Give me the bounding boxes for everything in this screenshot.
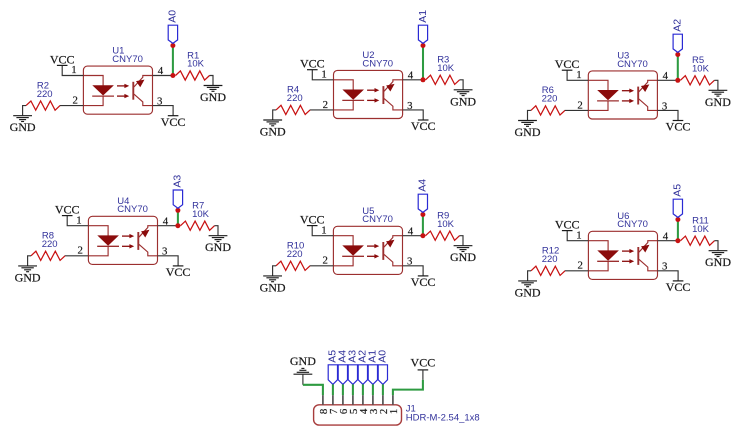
junction node A4 xyxy=(420,233,425,238)
U1 light arrow upper xyxy=(117,85,125,87)
svg-text:3: 3 xyxy=(662,261,667,273)
ground GND (R11) xyxy=(709,251,728,257)
wire node to flag (net A4) xyxy=(422,215,424,236)
svg-text:GND: GND xyxy=(705,95,731,109)
U1 phototransistor collector xyxy=(134,76,153,88)
junction node A2 xyxy=(675,78,680,83)
net flag A0 xyxy=(168,25,177,43)
U3 LED cathode bar xyxy=(597,100,619,102)
svg-text:220: 220 xyxy=(42,239,58,250)
svg-text:VCC: VCC xyxy=(666,280,691,294)
wire R2 to ground xyxy=(23,106,26,116)
svg-text:2: 2 xyxy=(577,260,582,272)
resistor R11 10K xyxy=(681,236,715,245)
ground GND (R12) xyxy=(518,281,537,287)
U1 phototransistor base bar xyxy=(132,82,134,100)
resistor R10 220 xyxy=(276,261,310,270)
junction node A0 xyxy=(170,73,175,78)
resistor R7 10K xyxy=(181,221,215,230)
wire R2 to pin 2 xyxy=(60,105,84,107)
svg-text:10K: 10K xyxy=(192,209,210,220)
svg-text:4: 4 xyxy=(663,70,669,82)
flag junction dot xyxy=(675,52,680,57)
wire R12 to ground xyxy=(528,271,531,281)
optocoupler U5 body xyxy=(333,226,402,274)
svg-text:4: 4 xyxy=(158,65,164,77)
resistor R4 220 xyxy=(276,105,310,114)
wire GND to pin 8 xyxy=(303,385,323,395)
wire A2 to J1 pin 4 xyxy=(362,384,364,395)
svg-text:10K: 10K xyxy=(187,59,205,70)
wire R4 to pin 2 xyxy=(310,109,334,111)
resistor R6 220 xyxy=(531,106,565,115)
J1 pin 7 xyxy=(332,395,334,405)
J1 pin 3 xyxy=(372,395,374,405)
power VCC (pin 3) xyxy=(418,275,429,277)
U4 light arrow lower xyxy=(122,245,130,247)
wire node to flag (net A5) xyxy=(677,220,679,241)
ground GND (R10) xyxy=(263,276,282,282)
wire R8 to pin 2 xyxy=(65,255,89,257)
svg-text:GND: GND xyxy=(290,354,316,368)
power VCC (pin 3) xyxy=(418,119,429,121)
U3 LED cathode path xyxy=(588,101,608,111)
wire R7 to ground xyxy=(215,226,219,236)
wire node to flag (net A3) xyxy=(177,210,179,225)
wire R6 to ground xyxy=(528,110,531,120)
svg-text:1: 1 xyxy=(576,229,581,241)
svg-text:3: 3 xyxy=(407,256,412,268)
ground GND (R5) xyxy=(709,90,728,96)
svg-text:CNY70: CNY70 xyxy=(117,204,148,215)
wire R10 to ground xyxy=(273,266,276,276)
svg-text:GND: GND xyxy=(260,280,286,294)
svg-text:CNY70: CNY70 xyxy=(617,59,648,70)
wire R11 to ground xyxy=(715,241,719,251)
U6 phototransistor base bar xyxy=(637,247,639,265)
net flag A4 (header) xyxy=(338,365,347,385)
net flag A5 (header) xyxy=(328,365,337,385)
U2 light arrow lower xyxy=(367,99,375,101)
power VCC (pin 3) xyxy=(673,280,684,282)
svg-text:GND: GND xyxy=(450,94,476,108)
U6 light arrow upper xyxy=(622,250,630,252)
U4 LED cathode path xyxy=(88,246,108,256)
svg-text:CNY70: CNY70 xyxy=(617,219,648,230)
wire R8 to ground xyxy=(28,256,31,266)
net flag A4 xyxy=(418,194,427,212)
U1 phototransistor emitter xyxy=(134,94,153,106)
svg-text:1: 1 xyxy=(76,214,81,226)
svg-text:2: 2 xyxy=(577,99,582,111)
power VCC (pin 1) xyxy=(62,215,73,217)
net flag A0 (header) xyxy=(378,365,387,385)
svg-text:10K: 10K xyxy=(437,63,455,74)
U5 light arrow upper xyxy=(367,245,375,247)
U2 LED cathode path xyxy=(334,100,354,110)
wire R6 to pin 2 xyxy=(565,109,589,111)
wire A3 to J1 pin 5 xyxy=(352,384,354,395)
svg-text:220: 220 xyxy=(287,249,303,260)
svg-text:2: 2 xyxy=(322,255,327,267)
wire pin 4 to node A5 xyxy=(658,240,678,242)
J1 pin 2 xyxy=(382,395,384,405)
U1 LED cathode bar xyxy=(92,95,114,97)
svg-text:220: 220 xyxy=(37,89,53,100)
wire R12 to pin 2 xyxy=(565,270,589,272)
wire R5 to ground xyxy=(714,80,718,90)
svg-text:1: 1 xyxy=(71,64,76,76)
wire R9 to ground xyxy=(460,236,464,246)
wire R10 to pin 2 xyxy=(310,265,334,267)
power VCC (pin 3) xyxy=(673,120,684,122)
flag junction dot xyxy=(421,43,426,48)
ground GND (R3) xyxy=(454,90,473,96)
svg-text:A0: A0 xyxy=(167,10,179,23)
svg-text:1: 1 xyxy=(321,69,326,81)
svg-text:A2: A2 xyxy=(672,19,684,32)
wire pin 3 to VCC xyxy=(403,110,424,120)
wire pin 3 to VCC xyxy=(158,256,179,266)
U2 LED anode path xyxy=(334,80,354,90)
svg-text:GND: GND xyxy=(515,285,541,299)
net flag A2 (header) xyxy=(358,365,367,385)
U2 LED cathode bar xyxy=(342,99,364,101)
wire pin 4 to node A0 xyxy=(153,75,173,77)
U1 LED triangle xyxy=(92,85,114,95)
wire A5 to J1 pin 7 xyxy=(332,384,334,395)
svg-text:10K: 10K xyxy=(692,64,710,75)
power VCC (pin 1) xyxy=(57,64,68,66)
resistor R8 220 xyxy=(31,251,65,260)
optocoupler U2 body xyxy=(334,70,403,118)
svg-text:CNY70: CNY70 xyxy=(362,214,393,225)
svg-text:VCC: VCC xyxy=(411,356,436,370)
svg-text:2: 2 xyxy=(72,95,77,107)
U6 light arrow lower xyxy=(622,260,630,262)
connector J1 body xyxy=(314,405,402,425)
net flag A3 (header) xyxy=(348,365,357,385)
wire pin 4 to node A1 xyxy=(403,79,423,81)
svg-text:220: 220 xyxy=(542,254,558,265)
svg-text:4: 4 xyxy=(408,69,414,81)
resistor R1 10K xyxy=(176,71,210,80)
ground GND (R4) xyxy=(263,120,282,126)
U5 light arrow lower xyxy=(367,255,375,257)
svg-text:4: 4 xyxy=(408,225,414,237)
J1 pin 8 xyxy=(322,395,324,405)
svg-text:GND: GND xyxy=(205,240,231,254)
U6 LED anode path xyxy=(588,241,608,251)
junction node A3 xyxy=(175,223,180,228)
power VCC (pin 1) xyxy=(307,69,318,71)
wire node to flag (net A2) xyxy=(677,55,679,81)
svg-text:4: 4 xyxy=(163,215,169,227)
U2 phototransistor base bar xyxy=(382,86,384,104)
flag junction dot xyxy=(675,217,680,222)
U3 phototransistor collector xyxy=(639,80,658,92)
svg-text:10K: 10K xyxy=(437,219,455,230)
U5 LED anode path xyxy=(333,236,353,246)
resistor R2 220 xyxy=(26,101,60,110)
net flag A1 (header) xyxy=(368,365,377,385)
power VCC (pin 1) xyxy=(307,225,318,227)
svg-text:3: 3 xyxy=(162,246,167,258)
svg-text:GND: GND xyxy=(15,270,41,284)
resistor R12 220 xyxy=(531,266,565,275)
U1 LED cathode path xyxy=(83,96,103,106)
net flag A3 xyxy=(173,190,182,208)
wire pin 4 to node A4 xyxy=(403,235,423,237)
svg-text:3: 3 xyxy=(407,100,412,112)
U6 phototransistor emitter xyxy=(639,259,658,271)
U3 light arrow upper xyxy=(622,90,630,92)
wire pin 3 to VCC xyxy=(403,266,424,276)
U6 LED triangle xyxy=(597,250,619,260)
wire pin 3 to VCC xyxy=(657,110,678,120)
U4 phototransistor base bar xyxy=(137,232,139,250)
svg-text:GND: GND xyxy=(260,125,286,139)
wire A4 to J1 pin 6 xyxy=(342,384,344,395)
wire pin 3 to VCC xyxy=(658,271,679,281)
U4 phototransistor collector xyxy=(139,226,158,238)
U2 light arrow upper xyxy=(367,89,375,91)
wire node to flag (net A0) xyxy=(172,46,174,76)
wire R3 to ground xyxy=(460,80,464,90)
U2 phototransistor emitter xyxy=(384,98,403,110)
svg-text:A3: A3 xyxy=(172,175,184,188)
svg-text:3: 3 xyxy=(157,96,162,108)
U4 phototransistor emitter xyxy=(139,244,158,256)
wire VCC to pin 1 xyxy=(312,226,333,236)
svg-text:A5: A5 xyxy=(327,350,339,363)
U5 LED cathode path xyxy=(333,256,353,266)
net flag A2 xyxy=(673,34,682,52)
U3 LED anode path xyxy=(588,80,608,90)
U3 phototransistor base bar xyxy=(637,87,639,105)
svg-text:3: 3 xyxy=(662,100,667,112)
power VCC (pin 1) xyxy=(562,69,573,71)
junction node A5 xyxy=(675,238,680,243)
U4 light arrow upper xyxy=(122,235,130,237)
svg-text:CNY70: CNY70 xyxy=(362,58,393,69)
svg-text:GND: GND xyxy=(10,120,36,134)
wire A0 to J1 pin 2 xyxy=(382,384,384,395)
wire VCC to pin 1 xyxy=(393,380,423,395)
svg-text:VCC: VCC xyxy=(666,120,691,134)
svg-text:2: 2 xyxy=(323,99,328,111)
wire VCC to pin 1 xyxy=(312,70,333,80)
power VCC (pin 3) xyxy=(168,115,179,117)
svg-text:10K: 10K xyxy=(692,224,710,235)
wire R4 to ground xyxy=(273,110,276,120)
flag junction dot xyxy=(170,43,175,48)
U4 LED anode path xyxy=(88,226,108,236)
U3 phototransistor emitter xyxy=(639,99,658,111)
svg-text:VCC: VCC xyxy=(161,115,186,129)
U5 phototransistor collector xyxy=(384,236,403,248)
J1 pin 4 xyxy=(362,395,364,405)
svg-text:GND: GND xyxy=(705,255,731,269)
wire node to flag (net A1) xyxy=(422,46,424,80)
optocoupler U4 body xyxy=(88,216,157,264)
U6 LED cathode path xyxy=(588,261,608,271)
J1 pin 5 xyxy=(352,395,354,405)
resistor R3 10K xyxy=(426,75,460,84)
U5 LED cathode bar xyxy=(342,255,364,257)
svg-text:VCC: VCC xyxy=(166,265,191,279)
ground GND (R7) xyxy=(209,236,228,242)
power VCC (pin 1) xyxy=(562,230,573,232)
svg-text:GND: GND xyxy=(515,125,541,139)
U1 LED anode path xyxy=(83,76,103,86)
wire pin 3 to VCC xyxy=(153,106,174,116)
svg-text:A4: A4 xyxy=(417,179,429,192)
resistor R5 10K xyxy=(680,76,714,85)
svg-text:HDR-M-2.54_1x8: HDR-M-2.54_1x8 xyxy=(406,413,480,424)
U3 light arrow lower xyxy=(622,100,630,102)
svg-text:GND: GND xyxy=(450,250,476,264)
wire VCC to pin 1 xyxy=(567,70,588,80)
U4 LED triangle xyxy=(97,235,119,245)
svg-text:A1: A1 xyxy=(417,10,429,23)
net flag A1 xyxy=(418,25,427,43)
ground GND (R2) xyxy=(13,116,32,122)
svg-text:8: 8 xyxy=(318,409,330,414)
ground GND (header) xyxy=(294,368,313,374)
U5 phototransistor emitter xyxy=(384,254,403,265)
svg-text:4: 4 xyxy=(663,230,669,242)
U5 LED triangle xyxy=(342,245,364,255)
flag junction dot xyxy=(420,212,425,217)
U5 phototransistor base bar xyxy=(382,242,384,260)
svg-text:1: 1 xyxy=(321,224,326,236)
flag junction dot xyxy=(175,208,180,213)
svg-text:A5: A5 xyxy=(672,184,684,197)
U1 light arrow lower xyxy=(117,95,125,97)
ground GND (R9) xyxy=(454,246,473,252)
svg-text:VCC: VCC xyxy=(411,275,436,289)
wire VCC to pin 1 xyxy=(67,216,88,226)
net flag A5 xyxy=(673,199,682,217)
U4 LED cathode bar xyxy=(97,245,119,247)
optocoupler U6 body xyxy=(588,231,657,279)
U6 LED cathode bar xyxy=(597,260,619,262)
wire VCC to pin 1 xyxy=(62,65,83,75)
wire VCC to pin 1 xyxy=(567,231,588,241)
U3 LED triangle xyxy=(597,90,619,100)
power VCC (pin 3) xyxy=(173,265,184,267)
wire R1 to ground xyxy=(210,76,214,86)
ground GND (R1) xyxy=(204,86,223,92)
svg-text:2: 2 xyxy=(77,245,82,257)
wire pin 4 to node A3 xyxy=(158,225,178,227)
resistor R9 10K xyxy=(426,231,460,240)
ground GND (R8) xyxy=(18,266,37,272)
optocoupler U1 body xyxy=(83,66,152,114)
optocoupler U3 body xyxy=(588,71,657,119)
U2 LED triangle xyxy=(342,90,364,100)
wire pin 4 to node A2 xyxy=(657,79,677,81)
svg-text:GND: GND xyxy=(200,90,226,104)
svg-text:1: 1 xyxy=(576,69,581,81)
J1 pin 6 xyxy=(342,395,344,405)
svg-text:220: 220 xyxy=(542,94,558,105)
junction node A1 xyxy=(421,77,426,82)
ground GND (R6) xyxy=(518,121,537,127)
svg-text:220: 220 xyxy=(287,93,303,104)
U6 phototransistor collector xyxy=(639,241,658,253)
wire A1 to J1 pin 3 xyxy=(372,384,374,395)
svg-text:VCC: VCC xyxy=(411,119,436,133)
J1 pin 1 xyxy=(392,395,394,405)
svg-text:CNY70: CNY70 xyxy=(112,54,143,65)
U2 phototransistor collector xyxy=(384,80,403,92)
